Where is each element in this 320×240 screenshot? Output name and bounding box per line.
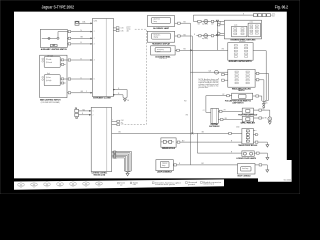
wire telematics display to feed rail <box>175 34 193 39</box>
feed rail vertical A <box>188 23 193 165</box>
instrument cluster right pin 1 wire <box>113 25 116 30</box>
drop wire row1 to row2 <box>215 21 220 35</box>
white schematic page <box>14 12 292 182</box>
lighting module right pin wire B (to dashed link) <box>112 122 117 127</box>
instrument cluster right pin 2 wire <box>113 28 116 33</box>
accessory panel controls unit <box>151 46 175 55</box>
wire aux lighting switch to instrument cluster (B) <box>67 41 90 46</box>
svg-text:LIGHTING CONTROL: LIGHTING CONTROL <box>92 173 108 175</box>
wire fog relay to fog lamp <box>254 110 270 117</box>
glovebox lamp unit <box>147 16 174 27</box>
wire levelling switch to ground cluster 1 <box>255 73 268 100</box>
white legend strip at bottom <box>14 179 224 189</box>
main lighting switch box (column switchgear) <box>40 55 67 97</box>
aux switch contact 1 <box>48 37 50 39</box>
legend entry ground <box>186 182 188 184</box>
page background (black) <box>0 0 300 194</box>
steering box stub pin lower <box>220 31 225 36</box>
switch block upper <box>44 57 60 68</box>
stub pin lower switch block <box>60 81 65 86</box>
wire fuse F33 to lighting module <box>79 112 92 117</box>
splice node S1 <box>191 132 193 134</box>
svg-text:STEERING WHEEL SWITCHES: STEERING WHEEL SWITCHES <box>230 40 256 42</box>
wire junction box to drl relay <box>218 117 242 122</box>
aux switch internal wire to top pin <box>58 32 67 38</box>
inline connector bulkhead <box>215 70 219 74</box>
wire main switch upper to instrument cluster <box>60 58 90 63</box>
wire main switch to instrument cluster lower pin <box>67 90 91 95</box>
wire licence plate lamps to ground <box>254 153 267 157</box>
levelling switch stub pin 1 <box>222 72 228 77</box>
stub pin upper switch block <box>60 62 65 67</box>
instrument cluster ground wire 2 <box>113 95 125 99</box>
legend entry T1 <box>118 182 120 184</box>
wire fog switch to ground cluster <box>253 96 262 101</box>
dashed link instrument cluster to lighting module <box>125 29 147 124</box>
panel dimmer module <box>161 138 176 147</box>
boot console box <box>238 164 256 174</box>
legend connector symbols <box>18 183 21 186</box>
wire aux facia switch to ground cluster <box>253 51 266 101</box>
wire fog switch to central junction box <box>206 96 232 113</box>
ground for monitor <box>266 145 269 147</box>
front fog lamp relay <box>242 108 253 114</box>
rotary switch symbol lower <box>42 76 44 78</box>
wire fuse F32 to lighting module <box>79 108 92 113</box>
feed rail vertical B <box>190 36 195 133</box>
courtesy lamp L2 <box>204 34 208 38</box>
net label battery feed <box>268 13 274 18</box>
instrument cluster ground wire 1 <box>113 90 127 99</box>
lighting control module box U2 <box>91 107 111 171</box>
headlamp levelling switch box <box>228 69 255 87</box>
legend entry splice <box>152 182 154 184</box>
wire dimmer module to rear lamp monitor <box>176 140 242 145</box>
licence plate lamp 2 <box>250 152 253 155</box>
rear lamp monitor box <box>242 129 254 144</box>
fuse F32 <box>75 109 79 112</box>
fuse F33 with ground lug <box>75 113 79 116</box>
daytime running lamp relay <box>242 116 253 122</box>
legend entry T2 <box>130 182 132 184</box>
rotary switch symbol upper <box>42 58 44 60</box>
lighting module ground wire bundle <box>112 151 132 172</box>
ground for licence plate lamps <box>266 157 269 159</box>
switch group A <box>232 26 247 37</box>
legend entry module <box>201 182 203 184</box>
diode node D1 <box>216 20 218 22</box>
diode node D2 <box>216 34 218 36</box>
svg-text:GL.0602: GL.0602 <box>284 179 292 181</box>
switch group B <box>248 23 260 37</box>
aux switch contact 2 <box>57 37 59 39</box>
courtesy lamp L1 <box>204 19 208 23</box>
drop wire row2 to accessory feed <box>215 36 220 51</box>
aux switch label plate <box>50 45 57 47</box>
ground cluster merge <box>262 98 264 104</box>
svg-text:INSTRUMENT CLUSTER: INSTRUMENT CLUSTER <box>93 98 111 100</box>
wire main switch lower to instrument cluster <box>60 77 90 82</box>
licence plate lamp 1 <box>243 152 246 155</box>
steering wheel switches box <box>224 20 261 39</box>
licence plate lamps box <box>242 151 254 156</box>
wire lighting module to trailer relay <box>112 131 242 136</box>
svg-text:Fig. 06.2: Fig. 06.2 <box>275 4 289 9</box>
lighting module right pin wire A <box>112 119 117 124</box>
levelling switch stub pin 2 <box>222 78 228 83</box>
central junction box <box>211 108 218 123</box>
wire fuse F11 to instrument cluster pin <box>79 21 91 26</box>
auxiliary lighting switch (facia) box <box>228 43 253 61</box>
ground G5 <box>262 104 265 106</box>
monitor stub pin right 2 <box>253 132 255 137</box>
feed wire to fuse bank <box>193 13 254 18</box>
fuse F11 (15A) <box>75 21 79 25</box>
auxiliary lighting switch box <box>40 29 67 47</box>
wire feed rail to headlamp levelling switch <box>190 70 227 75</box>
ground for boot console <box>266 170 269 172</box>
steering box stub pin upper <box>220 22 225 27</box>
telematics display unit <box>147 31 174 42</box>
wire boot console to ground <box>255 165 267 170</box>
switch block lower <box>44 75 60 86</box>
ground G6 for instrument cluster <box>122 96 127 102</box>
wire feed to licence plate lamps <box>197 133 242 153</box>
svg-text:Jaguar S-TYPE 2002: Jaguar S-TYPE 2002 <box>42 5 75 10</box>
luggage compartment lamp unit <box>156 160 173 171</box>
wire drl relay output <box>254 116 264 121</box>
wire accessory panel to auxiliary switch (right) <box>175 48 228 53</box>
front fog lamp switch box <box>232 93 253 99</box>
instrument cluster box U1 <box>93 18 114 96</box>
wire junction box to fog relay <box>218 109 242 114</box>
ground for fog lamp <box>267 121 272 122</box>
wire monitor to ground <box>253 142 267 145</box>
fuse bank F1-F4 <box>254 14 258 17</box>
wire aux lighting switch to instrument cluster (RB) <box>67 36 90 41</box>
aux switch internal wiper wire <box>42 36 57 41</box>
wire levelling switch to ground cluster 2 <box>255 80 264 101</box>
wire aux lighting switch to instrument cluster (N) <box>67 29 90 34</box>
wire glovebox lamp to feed rail <box>175 21 191 26</box>
ground G1 for lighting module <box>125 172 130 173</box>
drop wire fuse row to courtesy lamp row <box>191 15 196 21</box>
monitor stub pin right 1 <box>253 128 255 133</box>
front fog lamp <box>268 117 272 121</box>
courtesy lamp row wire <box>193 19 224 24</box>
wire luggage lamp to boot console <box>173 162 237 167</box>
